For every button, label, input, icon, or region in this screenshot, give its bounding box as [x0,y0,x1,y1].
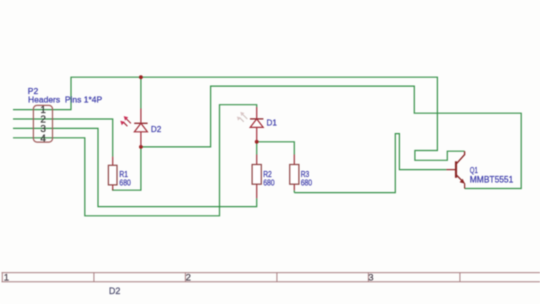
transistor Q1 base pin [446,169,456,171]
transistor Q1 base bar [455,161,457,178]
LED D1 bottom pin [256,127,258,141]
wire net3 pin3 to R2 bottom [13,128,257,206]
wire net6 D1 bottom to R2 top [256,142,258,155]
resistor R3 top pin [293,155,295,165]
LED D1 triangle (apex up) [250,119,263,128]
svg-text:680: 680 [301,177,313,187]
svg-text:2: 2 [186,273,191,284]
wire net4 pin4 to D1 anode [13,105,257,216]
resistor R3 bottom pin [293,184,295,190]
svg-text:3: 3 [368,273,373,284]
svg-text:4: 4 [40,133,46,144]
frame ruler bottom line [2,281,540,283]
junction dot at D2 cathode [139,145,143,149]
LED D1 cathode bar [250,118,263,120]
svg-text:D1: D1 [267,117,278,127]
junction dot at D1 cathode [255,140,259,144]
svg-text:D2: D2 [109,286,121,297]
resistor R2 body [252,165,261,185]
LED D2 anode pin (top) [140,109,142,124]
junction dot at D2 anode on top rail [139,75,143,79]
LED D1 light arrow 1 (faint) [240,112,247,119]
resistor R1 bottom pin [112,185,114,190]
svg-text:680: 680 [119,177,131,187]
resistor R3 body [290,165,299,185]
resistor R2 bottom pin [256,184,258,198]
resistor R2 top pin [256,155,258,165]
wire net5a D2 bottom to R1 bottom [113,147,141,190]
wire net1 pin1 to top rail to Q1 collector staircase [13,77,465,160]
frame ruler top line [2,272,540,274]
resistor R1 body [108,165,117,185]
wire R3 bottom stub [293,190,295,192]
LED D1 anode pin (top) [256,107,258,119]
LED D2 cathode bar [134,122,147,124]
svg-text:Headers Pins 1*4P: Headers Pins 1*4P [28,94,103,104]
svg-text:D2: D2 [151,124,162,134]
LED D2 triangle (apex up) [134,123,147,132]
svg-text:680: 680 [263,177,275,187]
LED D2 bottom pin [140,132,142,147]
connector P2 box [33,105,52,142]
svg-text:1: 1 [4,273,9,284]
wire D2 top stub from rail [140,77,142,108]
wire net2 pin2 to R1 top [13,119,113,157]
frame column ticks [2,273,460,282]
wire net7 D1 bottom to R3 top [257,142,295,155]
wire net5 D2 bottom to Q1 emitter [141,86,521,188]
LED D2 light arrow 2 [120,121,127,127]
svg-text:MMBT5551: MMBT5551 [470,174,514,184]
transistor Q1 collector pin [456,151,465,164]
LED D2 light arrow 1 [124,116,131,123]
wire net8 R3 bottom to Q1 base [294,134,446,193]
transistor Q1 emitter pin with arrow [456,175,465,189]
resistor R1 top pin [112,157,114,166]
LED D1 light arrow 2 (faint) [237,117,244,122]
